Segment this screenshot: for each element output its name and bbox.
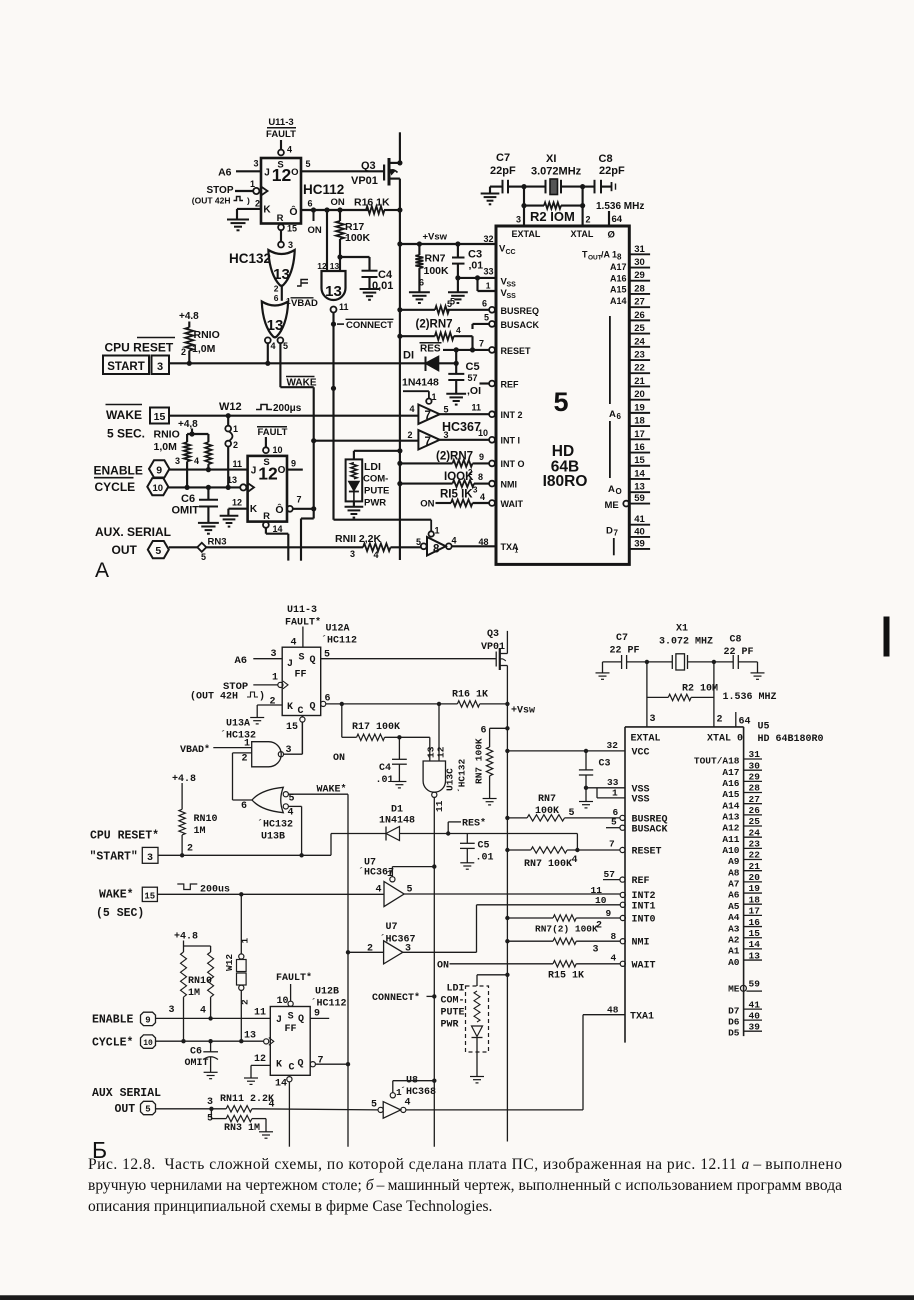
svg-text:OMIT: OMIT bbox=[185, 1058, 209, 1069]
svg-text:C: C bbox=[289, 1063, 295, 1074]
svg-text:WAKE*: WAKE* bbox=[317, 784, 347, 796]
svg-text:31: 31 bbox=[634, 244, 645, 255]
wire START (B) bbox=[158, 854, 331, 856]
svg-text:LDI: LDI bbox=[364, 461, 381, 473]
svg-text:A14: A14 bbox=[610, 296, 627, 306]
svg-text:BUSREQ: BUSREQ bbox=[501, 306, 540, 316]
terminal START 3 bbox=[103, 356, 149, 375]
svg-text:30: 30 bbox=[634, 257, 645, 268]
svg-text:FAULT: FAULT bbox=[266, 129, 296, 140]
terminal 5 (B) bbox=[141, 1101, 156, 1114]
svg-text:Q: Q bbox=[298, 1014, 304, 1025]
svg-text:3.072 MHZ: 3.072 MHZ bbox=[659, 637, 713, 648]
svg-text:CC: CC bbox=[506, 249, 516, 256]
svg-text:ENABLE: ENABLE bbox=[94, 464, 143, 478]
svg-text:вручную чернилами на чертежном: вручную чернилами на чертежном столе; б … bbox=[88, 1177, 842, 1194]
jumper W12 (B) bbox=[240, 894, 242, 954]
svg-text:´HC368: ´HC368 bbox=[400, 1086, 436, 1098]
svg-text:Q: Q bbox=[310, 655, 316, 666]
svg-text:40: 40 bbox=[749, 1010, 761, 1021]
svg-text:10: 10 bbox=[143, 1039, 153, 1048]
svg-text:5: 5 bbox=[450, 297, 455, 307]
address bus line A14-A6-A0 bbox=[609, 316, 611, 404]
svg-text:12: 12 bbox=[258, 464, 278, 484]
terminal hex 9 bbox=[149, 460, 169, 477]
svg-text:RN7: RN7 bbox=[538, 794, 556, 805]
svg-text:3: 3 bbox=[147, 853, 153, 864]
svg-text:33: 33 bbox=[483, 267, 493, 277]
svg-text:8: 8 bbox=[433, 544, 440, 556]
svg-text:+4,8: +4,8 bbox=[178, 419, 198, 430]
wire WAKE5SEC to buffer bbox=[169, 415, 418, 417]
gate U13C HC132 bbox=[429, 737, 431, 761]
svg-text:0,01: 0,01 bbox=[372, 280, 393, 292]
right edge mark bbox=[884, 617, 889, 656]
svg-text:1: 1 bbox=[486, 281, 491, 291]
svg-text:4: 4 bbox=[291, 638, 297, 649]
svg-text:WAIT: WAIT bbox=[632, 961, 656, 972]
svg-text:ON: ON bbox=[437, 961, 449, 972]
LDI COMPUTE PWR box bbox=[346, 459, 363, 501]
svg-text:,OI: ,OI bbox=[467, 385, 481, 397]
svg-text:D7: D7 bbox=[728, 1006, 740, 1017]
wire VCC (B) bbox=[507, 750, 625, 752]
svg-text:I80RO: I80RO bbox=[543, 473, 588, 490]
svg-text:28: 28 bbox=[749, 783, 761, 794]
svg-text:(2)RN7: (2)RN7 bbox=[416, 319, 453, 331]
svg-text:AUX. SERIAL: AUX. SERIAL bbox=[95, 525, 171, 539]
svg-text:3: 3 bbox=[650, 714, 656, 725]
wire OUT (B) bbox=[156, 1108, 227, 1110]
pin 6 Qbar wire bbox=[321, 701, 326, 706]
svg-text:R17 100K: R17 100K bbox=[352, 722, 400, 733]
svg-text:CONNECT*: CONNECT* bbox=[372, 992, 420, 1004]
terminal 15 (B) bbox=[142, 887, 157, 901]
wire gate pin12 input bbox=[326, 210, 328, 271]
svg-text:,01: ,01 bbox=[469, 260, 484, 272]
svg-text:10: 10 bbox=[273, 445, 283, 455]
svg-text:2: 2 bbox=[596, 921, 602, 932]
svg-text:6: 6 bbox=[241, 801, 247, 812]
svg-text:4: 4 bbox=[200, 1006, 206, 1017]
svg-text:3.072MHz: 3.072MHz bbox=[531, 166, 582, 178]
svg-text:A8: A8 bbox=[728, 867, 740, 878]
svg-text:8: 8 bbox=[478, 472, 483, 482]
svg-text:NMI: NMI bbox=[501, 479, 518, 489]
svg-text:12: 12 bbox=[232, 498, 242, 508]
svg-text:A13: A13 bbox=[722, 812, 739, 823]
svg-text:A14: A14 bbox=[722, 800, 739, 811]
svg-text:O: O bbox=[616, 487, 622, 496]
LDI led (B) bbox=[472, 1026, 483, 1037]
svg-text:9: 9 bbox=[156, 464, 162, 476]
svg-text:5: 5 bbox=[283, 341, 288, 351]
svg-text:START: START bbox=[107, 361, 144, 373]
svg-text:4: 4 bbox=[405, 1098, 411, 1109]
capacitor C3 ,01 bbox=[455, 241, 460, 246]
terminal 10 (B) bbox=[141, 1035, 156, 1048]
svg-text:FF: FF bbox=[285, 1024, 297, 1035]
svg-text:XTAL: XTAL bbox=[571, 229, 594, 239]
svg-text:U13A: U13A bbox=[226, 719, 250, 730]
clock wedge FF2 bbox=[240, 484, 246, 490]
svg-text:6: 6 bbox=[308, 199, 313, 209]
wire INT2 (B) bbox=[404, 893, 620, 895]
wire WAKE to U7a bbox=[157, 893, 384, 895]
svg-text:12: 12 bbox=[254, 1054, 266, 1065]
svg-text:2: 2 bbox=[407, 430, 412, 440]
svg-text:4: 4 bbox=[456, 325, 461, 335]
svg-text:RN7 100K: RN7 100K bbox=[524, 859, 572, 870]
svg-text:D5: D5 bbox=[728, 1028, 740, 1039]
svg-text:16: 16 bbox=[749, 917, 761, 928]
buffer U7b HC367 bbox=[418, 430, 439, 449]
svg-text:23: 23 bbox=[749, 839, 761, 850]
svg-text:100K: 100K bbox=[345, 232, 371, 244]
wire WAKE net bbox=[279, 343, 281, 387]
svg-text:1: 1 bbox=[233, 424, 238, 434]
svg-text:X1: X1 bbox=[676, 624, 688, 635]
svg-text:28: 28 bbox=[634, 283, 645, 294]
wire +Vsw to VCC bbox=[400, 243, 496, 245]
clock bubble U12B bbox=[264, 1039, 269, 1044]
svg-text:14: 14 bbox=[275, 1079, 287, 1090]
svg-text:26: 26 bbox=[749, 805, 761, 816]
svg-text:13: 13 bbox=[227, 475, 237, 485]
svg-text:"START": "START" bbox=[90, 851, 138, 864]
svg-text:RN7 100K: RN7 100K bbox=[474, 738, 485, 784]
wire BUSACK stub bbox=[473, 323, 490, 325]
pin 7 Qbar wire bbox=[287, 506, 293, 512]
svg-text:3: 3 bbox=[169, 1005, 175, 1016]
svg-text:5: 5 bbox=[484, 313, 489, 323]
wire U7b input bbox=[348, 951, 384, 953]
svg-text:39: 39 bbox=[634, 538, 645, 549]
svg-text:LDI: LDI bbox=[447, 984, 465, 995]
svg-text:8: 8 bbox=[617, 253, 622, 262]
svg-text:20: 20 bbox=[749, 872, 761, 883]
svg-text:1: 1 bbox=[396, 1087, 402, 1098]
svg-text:RN3: RN3 bbox=[208, 537, 227, 548]
resistor RNIO 1,0M upper bbox=[185, 327, 193, 350]
IC A right pin ladder 31-13 bbox=[629, 253, 650, 255]
svg-text:15: 15 bbox=[287, 224, 297, 234]
svg-text:1M: 1M bbox=[194, 826, 206, 837]
svg-text:11: 11 bbox=[339, 302, 349, 312]
svg-text:22: 22 bbox=[634, 363, 645, 374]
wire K to ground bbox=[237, 208, 261, 210]
svg-text:INT O: INT O bbox=[501, 459, 525, 469]
svg-text:´HC132: ´HC132 bbox=[257, 819, 293, 831]
svg-text:U11-3: U11-3 bbox=[268, 117, 293, 128]
wire START to D1 bbox=[169, 362, 426, 364]
wire RES to RESET bbox=[576, 834, 578, 851]
svg-text:A16: A16 bbox=[722, 778, 739, 789]
svg-text:CPU RESET: CPU RESET bbox=[105, 341, 174, 355]
pin 64 phi bbox=[608, 211, 610, 226]
svg-text:30: 30 bbox=[749, 760, 761, 771]
wire CONNECT to buffer8 enable bbox=[334, 519, 432, 521]
svg-text:U13B: U13B bbox=[261, 832, 285, 843]
terminal 15 bbox=[150, 408, 169, 424]
svg-text:VP01: VP01 bbox=[351, 175, 378, 187]
svg-text:5: 5 bbox=[416, 537, 421, 547]
svg-text:A16: A16 bbox=[610, 273, 627, 283]
svg-text:22pF: 22pF bbox=[490, 165, 516, 177]
svg-text:C6: C6 bbox=[190, 1047, 202, 1058]
svg-text:OMIT: OMIT bbox=[172, 505, 200, 517]
svg-text:22: 22 bbox=[749, 850, 761, 861]
svg-text:+4.8: +4.8 bbox=[172, 774, 196, 785]
svg-text:1: 1 bbox=[612, 788, 618, 799]
svg-text:17: 17 bbox=[634, 429, 645, 440]
svg-text:3: 3 bbox=[157, 361, 163, 373]
svg-text:A11: A11 bbox=[722, 834, 739, 845]
svg-text:S: S bbox=[288, 1012, 294, 1023]
svg-text:VSS: VSS bbox=[632, 795, 650, 806]
svg-text:´HC132: ´HC132 bbox=[220, 730, 256, 742]
svg-text:10: 10 bbox=[595, 895, 607, 906]
svg-text:7: 7 bbox=[425, 436, 431, 448]
pin REF stub bbox=[480, 382, 490, 384]
svg-text:U12A: U12A bbox=[326, 624, 350, 635]
resistor R2 10M loop bbox=[523, 187, 525, 206]
wire VSS pins bbox=[458, 277, 496, 279]
svg-text:1: 1 bbox=[240, 938, 251, 944]
pulse 200us (B) bbox=[177, 884, 197, 890]
svg-text:2: 2 bbox=[255, 199, 260, 209]
svg-text:S: S bbox=[299, 653, 305, 664]
svg-text:1.536 MHZ: 1.536 MHZ bbox=[723, 692, 777, 703]
resistor RNIO 1,0M lower left bbox=[186, 434, 188, 442]
svg-text:3: 3 bbox=[207, 1097, 213, 1108]
resistor RNIO lower right bbox=[207, 434, 209, 442]
LDI resistor (B) bbox=[474, 991, 480, 1022]
pin 10 S input bbox=[265, 437, 267, 447]
svg-text:C7: C7 bbox=[496, 152, 510, 164]
svg-text:NMI: NMI bbox=[632, 938, 650, 949]
svg-text:K: K bbox=[250, 504, 258, 515]
svg-text:ENABLE: ENABLE bbox=[92, 1014, 134, 1027]
buffer U7a HC367 bbox=[418, 405, 439, 424]
svg-text:11: 11 bbox=[434, 800, 445, 812]
svg-text:R2 IOM: R2 IOM bbox=[530, 209, 575, 224]
svg-text:J: J bbox=[287, 659, 293, 670]
svg-text:HC132: HC132 bbox=[229, 251, 271, 266]
svg-text:C8: C8 bbox=[730, 635, 742, 646]
svg-text:2: 2 bbox=[468, 468, 473, 477]
svg-text:1: 1 bbox=[435, 526, 440, 536]
svg-text:13: 13 bbox=[749, 950, 761, 961]
svg-text:EXTAL: EXTAL bbox=[631, 734, 661, 745]
svg-text:9: 9 bbox=[291, 459, 296, 469]
svg-text:22pF: 22pF bbox=[599, 165, 625, 177]
capacitor C5 ,01 bbox=[455, 363, 457, 374]
terminal hex 10 bbox=[147, 478, 168, 495]
svg-text:9: 9 bbox=[479, 452, 484, 462]
svg-text:ME: ME bbox=[728, 984, 740, 995]
svg-text:WAKE*: WAKE* bbox=[99, 889, 134, 902]
svg-text:1N4148: 1N4148 bbox=[402, 377, 439, 389]
pin bubble RESET bbox=[489, 347, 495, 353]
svg-text:4: 4 bbox=[374, 550, 379, 560]
crystal circuit: ground left bbox=[490, 186, 502, 188]
svg-text:SS: SS bbox=[507, 293, 517, 300]
resistor RN10 right (B) bbox=[210, 946, 212, 952]
svg-text:5: 5 bbox=[371, 1100, 377, 1111]
gate outputs 4 5 bbox=[265, 337, 271, 343]
svg-text:A17: A17 bbox=[610, 262, 627, 272]
svg-text:VBAD*: VBAD* bbox=[180, 744, 210, 756]
svg-text:WAKE: WAKE bbox=[106, 408, 142, 422]
svg-text:´HC112: ´HC112 bbox=[321, 635, 357, 647]
svg-text:11: 11 bbox=[232, 459, 242, 469]
svg-text:OUT: OUT bbox=[588, 255, 602, 262]
ground at LDI bbox=[353, 501, 355, 506]
svg-text:+4.8: +4.8 bbox=[174, 932, 198, 943]
svg-text:A1: A1 bbox=[728, 946, 740, 957]
svg-text:Ô: Ô bbox=[289, 205, 297, 218]
svg-text:PWR: PWR bbox=[441, 1020, 459, 1031]
wire U13B pin4 down bbox=[288, 805, 301, 807]
svg-text:Q3: Q3 bbox=[361, 160, 376, 172]
+Vsw rail (B) bbox=[506, 666, 508, 1142]
svg-text:5: 5 bbox=[155, 545, 161, 557]
svg-text:19: 19 bbox=[749, 883, 761, 894]
AND gate 13 (HC132 schmitt) bbox=[322, 271, 346, 300]
svg-text:24: 24 bbox=[749, 827, 761, 838]
svg-text:24: 24 bbox=[634, 336, 645, 347]
resistor RN10 left (B) bbox=[183, 946, 185, 952]
svg-text:A2: A2 bbox=[728, 934, 740, 945]
svg-text:13: 13 bbox=[273, 266, 290, 283]
IC B box bbox=[625, 726, 744, 728]
wire ENABLE to J bbox=[169, 469, 247, 471]
svg-text:4: 4 bbox=[288, 808, 294, 819]
svg-text:A15: A15 bbox=[722, 789, 739, 800]
svg-text:5: 5 bbox=[569, 808, 575, 819]
svg-text:19: 19 bbox=[634, 402, 645, 413]
svg-text:XI: XI bbox=[546, 153, 556, 165]
svg-text:W12: W12 bbox=[219, 401, 242, 413]
svg-text:WAIT: WAIT bbox=[501, 499, 524, 509]
svg-text:Q: Q bbox=[298, 1059, 304, 1070]
svg-text:RES*: RES* bbox=[462, 818, 486, 830]
svg-text:A: A bbox=[608, 484, 615, 495]
svg-text:R2 10M: R2 10M bbox=[682, 684, 718, 695]
svg-text:C8: C8 bbox=[599, 153, 613, 165]
flip-flop U12A HC112 box bbox=[282, 647, 321, 715]
svg-text:O: O bbox=[291, 167, 298, 178]
svg-text:100K: 100K bbox=[535, 806, 559, 817]
svg-text:(5 SEC): (5 SEC) bbox=[96, 907, 144, 920]
svg-text:O: O bbox=[278, 465, 286, 476]
svg-text:CYCLE: CYCLE bbox=[95, 480, 136, 494]
capacitor C5 .01 (B) bbox=[466, 834, 468, 844]
svg-text:А: А bbox=[95, 559, 109, 582]
svg-text:5 SEC.: 5 SEC. bbox=[107, 427, 145, 441]
wire OUT to RN11 bbox=[169, 546, 198, 548]
wire A6 to J bbox=[236, 170, 261, 172]
svg-text:15: 15 bbox=[154, 411, 166, 423]
svg-text:J: J bbox=[276, 1015, 282, 1026]
svg-text:13: 13 bbox=[244, 1031, 256, 1042]
gate output bubble pin 11 bbox=[331, 307, 337, 313]
svg-text:11: 11 bbox=[471, 403, 481, 413]
svg-text:.01: .01 bbox=[476, 853, 494, 864]
svg-text:DI: DI bbox=[403, 350, 414, 362]
node RES* (B) bbox=[447, 822, 449, 834]
svg-text:57: 57 bbox=[604, 869, 616, 880]
svg-text:VCC: VCC bbox=[632, 748, 650, 759]
svg-text:A: A bbox=[609, 409, 616, 420]
svg-text:R: R bbox=[277, 213, 284, 224]
svg-text:RESET: RESET bbox=[632, 847, 662, 858]
svg-text:RES: RES bbox=[420, 344, 441, 355]
wire TXA1 (B) bbox=[406, 1109, 583, 1111]
IC U5 HD64B180RO box bbox=[496, 226, 629, 564]
wire ON node bbox=[341, 704, 343, 737]
svg-text:1: 1 bbox=[272, 673, 278, 684]
svg-text:7: 7 bbox=[425, 410, 431, 422]
buffer U8 (8) bbox=[429, 531, 434, 536]
svg-text:27: 27 bbox=[634, 297, 645, 308]
svg-text:ON: ON bbox=[333, 753, 345, 764]
svg-text:5: 5 bbox=[444, 405, 449, 415]
svg-text:5: 5 bbox=[553, 387, 568, 417]
svg-text:RNII 2,2K: RNII 2,2K bbox=[335, 533, 382, 545]
svg-text:C5: C5 bbox=[478, 841, 490, 852]
pin 14 R output bbox=[263, 522, 269, 528]
bottom scan edge bbox=[0, 1296, 914, 1300]
svg-text:описания принципиальной схемы: описания принципиальной схемы в фирме Ca… bbox=[88, 1198, 492, 1215]
svg-text:4: 4 bbox=[194, 456, 199, 466]
svg-text:32: 32 bbox=[607, 740, 619, 751]
node CONNECT label bbox=[337, 323, 344, 325]
svg-text:A0: A0 bbox=[728, 957, 740, 968]
svg-text:STOP: STOP bbox=[206, 185, 233, 196]
svg-text:59: 59 bbox=[749, 979, 761, 990]
svg-text:RESET: RESET bbox=[501, 346, 532, 356]
svg-text:ON: ON bbox=[420, 499, 434, 510]
svg-text:6: 6 bbox=[617, 412, 622, 421]
svg-text:3: 3 bbox=[175, 456, 180, 466]
wire U13A pin2 to U13B bbox=[232, 753, 234, 800]
svg-text:9: 9 bbox=[145, 1016, 150, 1026]
svg-text:INT I: INT I bbox=[501, 436, 521, 446]
schmitt symbol bbox=[297, 280, 308, 287]
svg-text:PUTE: PUTE bbox=[441, 1008, 465, 1019]
wire CYCLE to clock bbox=[168, 486, 240, 488]
wire CYCLE (B) bbox=[156, 1040, 264, 1042]
svg-text:64: 64 bbox=[739, 717, 751, 728]
svg-text:K: K bbox=[287, 702, 293, 713]
svg-text:7: 7 bbox=[609, 839, 615, 850]
svg-text:U13C: U13C bbox=[445, 768, 456, 791]
svg-text:BUSACK: BUSACK bbox=[632, 825, 668, 836]
svg-text:J: J bbox=[251, 466, 257, 477]
svg-text:): ) bbox=[247, 196, 250, 206]
svg-text:ME: ME bbox=[605, 500, 619, 511]
wire Q3 drain stub up bbox=[399, 132, 401, 163]
svg-text:1.536 MHz: 1.536 MHz bbox=[596, 201, 644, 212]
ground at C5 bbox=[446, 393, 466, 395]
svg-text:48: 48 bbox=[478, 537, 488, 547]
svg-text:1: 1 bbox=[432, 392, 437, 402]
svg-text:3: 3 bbox=[271, 649, 277, 660]
svg-text:D: D bbox=[606, 526, 613, 537]
svg-text:HD 64B180R0: HD 64B180R0 bbox=[758, 734, 824, 745]
